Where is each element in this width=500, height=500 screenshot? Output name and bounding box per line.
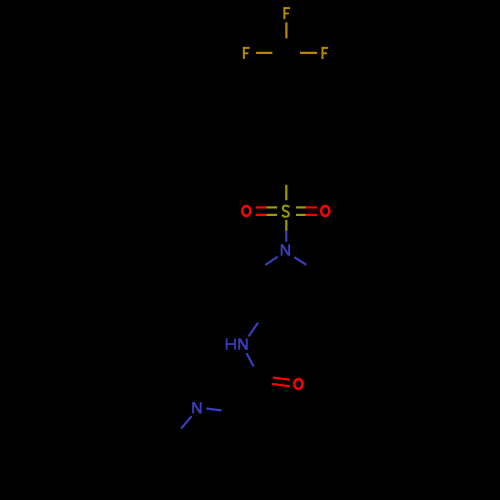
bond Npy-C2 pyridine (N half) <box>206 409 221 411</box>
atom F3 label (right) <box>322 47 329 59</box>
bond N1-C2 pyrrolidine (N half) <box>294 257 306 265</box>
bond S=O left line1 S half <box>266 206 277 208</box>
bond C7-F1 (CF3 top, F half) <box>285 22 287 38</box>
bond C4(benzene)-S (S half) <box>285 185 287 201</box>
atom O left label <box>242 206 250 216</box>
bond N(amide)-C(carbonyl) (N half) <box>247 353 254 366</box>
atom O right label <box>321 206 329 216</box>
atom N amide, label N of HN <box>238 338 247 349</box>
bond C=O carbonyl line2 (O half) <box>272 384 290 386</box>
atom F1 label (top) <box>283 7 290 19</box>
bond S-N1 N half <box>285 231 287 242</box>
bond Npy-C6 pyridine (N half) <box>181 416 191 428</box>
bond N1-C5 pyrrolidine (N half) <box>265 257 277 265</box>
bond C4(pyrrolidine)-N(amide) (N half) <box>249 323 259 337</box>
bond C7-F3 (CF3 right, F half) <box>300 52 317 54</box>
bond S=O left line1 O half <box>256 206 267 208</box>
atom S label <box>282 206 289 217</box>
atom N amide, label H of HN <box>226 338 236 349</box>
bond S=O right line1 S half <box>296 206 306 208</box>
atom N pyridine label <box>192 402 201 413</box>
bond S=O left line2 O half <box>256 214 267 216</box>
bond S-N1 S half <box>285 220 287 231</box>
atom F2 label (left) <box>243 47 250 59</box>
bond S=O right line2 O half <box>306 214 317 216</box>
bond C=O carbonyl line1 (O half) <box>273 378 290 380</box>
bond S=O right line2 S half <box>296 214 306 216</box>
bond C7-F2 (CF3 left, F half) <box>256 52 272 54</box>
bond S=O left line2 S half <box>266 214 277 216</box>
atom O carbonyl label <box>294 379 302 389</box>
atom N1 pyrrolidine label <box>281 244 290 255</box>
bond S=O right line1 O half <box>306 206 317 208</box>
